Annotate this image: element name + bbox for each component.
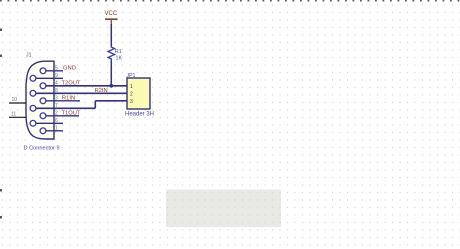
J1 pin 6 [30, 118, 63, 126]
resistor R1 [108, 46, 122, 62]
wire J1 pin7 horizontal [36, 107, 95, 109]
wire net R2IN J1 pin8 to JP1 pin2 [36, 92, 127, 94]
svg-text:1: 1 [130, 84, 133, 90]
svg-text:GND: GND [63, 65, 76, 71]
selection highlight box [166, 190, 281, 228]
svg-text:Header 3H: Header 3H [125, 112, 154, 118]
svg-text:2: 2 [130, 92, 133, 98]
J1 pin 3 [40, 95, 80, 103]
svg-text:VCC: VCC [105, 11, 118, 17]
sheet border ticks top edge [0, 0, 460, 2]
sheet border tick left edge [0, 216, 2, 219]
sheet border tick left edge [0, 55, 2, 58]
svg-text:1: 1 [55, 125, 58, 131]
svg-text:3: 3 [130, 99, 133, 105]
svg-text:2: 2 [55, 110, 58, 116]
J1 pin 1 [40, 125, 63, 133]
J1 pin 7 [30, 103, 58, 111]
junction on T2OUT wire [109, 84, 113, 88]
J1 pin 8 [30, 88, 58, 96]
wire vertical step up [94, 101, 96, 109]
J1 pin 11 [9, 111, 26, 117]
connector J1 D Connector 9 [24, 53, 60, 152]
wire to JP1 pin3 [95, 100, 127, 102]
svg-text:3: 3 [55, 95, 58, 101]
svg-text:1K: 1K [116, 56, 123, 62]
header JP1 [125, 73, 154, 118]
J1 pin 10 [9, 97, 26, 103]
svg-text:R1IN: R1IN [62, 95, 75, 101]
wire net T2OUT J1 pin4 to JP1 pin1 [46, 85, 127, 87]
svg-text:R1: R1 [115, 49, 122, 55]
J1 pin 4 [40, 80, 58, 88]
svg-text:5: 5 [55, 65, 58, 71]
J1 pin 9 [30, 73, 63, 81]
svg-text:6: 6 [55, 118, 58, 124]
J1 pin 5 (GND) [40, 65, 63, 73]
wire VCC to R1 [110, 24, 112, 46]
wire R1 to net T2OUT [110, 61, 112, 87]
sheet border tick left edge [0, 189, 2, 192]
J1 pin 2 [40, 110, 79, 118]
svg-text:T1OUT: T1OUT [62, 110, 81, 116]
svg-text:11: 11 [11, 111, 16, 117]
power VCC symbol [105, 11, 118, 25]
sheet border tick left edge [0, 29, 2, 32]
svg-text:9: 9 [55, 73, 58, 79]
svg-text:R2IN: R2IN [95, 88, 108, 94]
svg-text:J1: J1 [26, 53, 32, 59]
svg-text:10: 10 [12, 97, 18, 103]
svg-text:D Connector 9: D Connector 9 [24, 146, 60, 152]
